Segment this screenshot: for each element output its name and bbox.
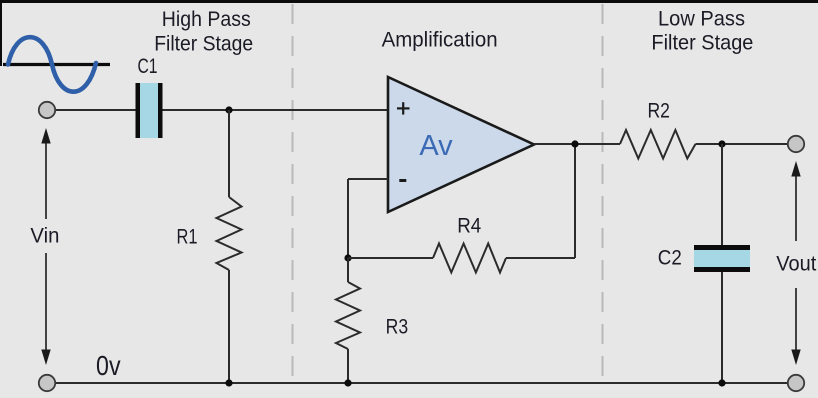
wire feedback node to R4 — [348, 257, 433, 259]
wire down to feedback node — [347, 179, 349, 258]
svg-text:Av: Av — [419, 130, 453, 162]
wire R3 to ground rail — [347, 349, 349, 383]
resistor R4 — [433, 244, 506, 273]
input terminal — [39, 102, 55, 118]
svg-text:Vout: Vout — [776, 253, 816, 276]
wire R3 from feedback node down — [347, 258, 349, 282]
resistor R3 — [336, 282, 360, 349]
stage divider 2 — [602, 4, 604, 386]
svg-text:C2: C2 — [658, 247, 682, 270]
wire input to C1 — [55, 109, 136, 111]
svg-text:C1: C1 — [138, 55, 158, 78]
ground terminal right — [788, 375, 804, 391]
node A junction dot — [225, 106, 232, 113]
label High Pass Filter Stage — [154, 7, 253, 56]
wire op-amp inverting input left — [348, 178, 388, 180]
svg-text:R1: R1 — [177, 226, 198, 249]
junction dot R1-ground — [225, 379, 232, 386]
svg-text:R4: R4 — [457, 215, 481, 238]
pin - (inverting) — [399, 179, 406, 182]
svg-text:Vin: Vin — [30, 225, 59, 248]
left border — [0, 0, 2, 66]
Vout arrow — [791, 161, 800, 365]
svg-text:0v: 0v — [96, 350, 121, 381]
svg-text:Filter Stage: Filter Stage — [651, 31, 753, 55]
svg-text:R3: R3 — [386, 316, 409, 339]
wire node A down to R1 — [228, 110, 230, 197]
wire C2 to ground rail — [721, 272, 723, 383]
node B junction dot — [718, 140, 725, 147]
stage divider 1 — [292, 4, 294, 386]
output node junction dot — [571, 140, 578, 147]
op-amp U1 — [388, 77, 534, 212]
svg-text:High Pass: High Pass — [162, 7, 251, 31]
ground rail 0v — [55, 382, 788, 384]
top border — [0, 0, 818, 3]
junction dot C2-ground — [718, 379, 725, 386]
label Low Pass Filter Stage — [651, 7, 753, 55]
feedback node junction dot — [344, 254, 351, 261]
resistor R1 — [217, 197, 242, 270]
resistor R2 — [620, 130, 696, 159]
output terminal — [788, 136, 804, 152]
wire R4 to output branch — [506, 257, 575, 259]
svg-text:Amplification: Amplification — [382, 28, 498, 52]
svg-text:R2: R2 — [647, 100, 670, 123]
junction dot R3-ground — [344, 379, 351, 386]
svg-text:Filter Stage: Filter Stage — [154, 32, 253, 56]
wire feedback rise to output node — [574, 144, 576, 258]
Vin arrow — [41, 128, 50, 365]
wire C1 to op-amp + input — [163, 109, 389, 111]
source sine symbol — [3, 37, 110, 92]
wire op-amp output — [534, 143, 620, 145]
wire R2 to output terminal — [696, 143, 789, 145]
capacitor C1 — [136, 83, 163, 138]
svg-text:Low Pass: Low Pass — [658, 7, 745, 31]
ground terminal left — [39, 375, 55, 391]
pin + (non-inverting) — [397, 102, 410, 114]
capacitor C2 — [694, 245, 750, 272]
wire node B down to C2 — [721, 144, 723, 245]
wire R1 to ground rail — [228, 270, 230, 383]
